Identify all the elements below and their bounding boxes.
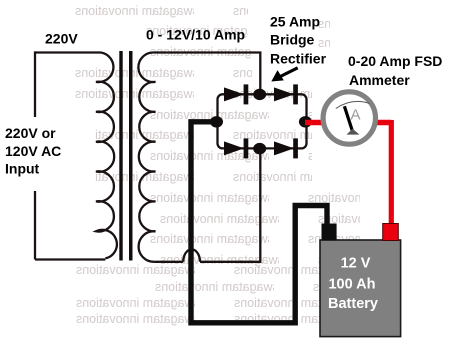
wire: primary top lead xyxy=(35,51,101,53)
battery labels xyxy=(328,256,378,312)
wire: secondary top lead to bridge AC top node xyxy=(154,53,260,91)
svg-text:Battery: Battery xyxy=(328,296,378,312)
diode D1 (bridge top-left) triangle xyxy=(224,87,244,101)
wire: red positive lead down to battery plus xyxy=(389,120,394,226)
ammeter needle xyxy=(344,106,352,131)
diode D2 (bridge top-right) triangle xyxy=(274,87,294,101)
bridge rectifier outline xyxy=(218,94,307,148)
diode D3 (bridge bottom-left) triangle xyxy=(224,141,244,155)
wire: primary left vertical lead xyxy=(34,51,36,259)
svg-text:0 - 12V/10 Amp: 0 - 12V/10 Amp xyxy=(146,27,245,43)
svg-text:220V: 220V xyxy=(45,31,78,47)
ammeter scale arc xyxy=(336,101,370,108)
battery plus terminal xyxy=(383,224,399,241)
svg-text:Ammeter: Ammeter xyxy=(349,72,410,88)
svg-text:220V or: 220V or xyxy=(5,125,56,141)
diode D3 cathode bar xyxy=(244,138,249,158)
white backing for AC input label xyxy=(2,117,95,191)
diode D1 cathode bar xyxy=(244,84,249,104)
diode D4 cathode bar xyxy=(293,138,298,158)
svg-text:100 Ah: 100 Ah xyxy=(328,277,375,293)
svg-text:Bridge: Bridge xyxy=(270,32,315,48)
ammeter M1 body xyxy=(323,92,375,144)
transformer T1 primary winding xyxy=(96,53,117,259)
svg-text:12 V: 12 V xyxy=(341,256,371,272)
junction dot: bridge DC plus node xyxy=(299,116,312,127)
wire hop: secondary bottom lead crossing thick negative wire xyxy=(183,249,200,261)
wire: secondary bottom lead (left of hop) xyxy=(155,261,184,263)
battery B1 body xyxy=(320,240,401,337)
transformer T1 secondary winding xyxy=(138,52,155,261)
svg-text:Input: Input xyxy=(5,161,40,177)
label arrow pointing to bridge rectifier xyxy=(271,68,297,82)
ammeter needle base xyxy=(347,129,360,135)
transformer core line left xyxy=(119,51,122,261)
svg-text:Rectifier: Rectifier xyxy=(270,51,327,67)
junction dot: bridge AC top node xyxy=(253,89,266,100)
junction dot: bridge AC bottom node xyxy=(253,143,266,154)
junction dot: bridge DC minus node xyxy=(210,116,223,127)
svg-text:120V AC: 120V AC xyxy=(5,143,61,159)
wire: primary bottom lead xyxy=(35,258,105,260)
wire: thick negative lead from bridge to battery minus xyxy=(191,122,327,323)
diode D2 cathode bar xyxy=(293,84,298,104)
battery minus terminal xyxy=(322,224,337,241)
diode D4 (bridge bottom-right) triangle xyxy=(274,141,294,155)
svg-text:25 Amp: 25 Amp xyxy=(270,13,320,29)
transformer core line right xyxy=(129,51,133,261)
wire: red positive lead from bridge through ammeter xyxy=(305,120,391,126)
wire: secondary bottom lead to bridge AC bottom node xyxy=(200,152,260,262)
svg-text:0-20 Amp FSD: 0-20 Amp FSD xyxy=(348,53,442,69)
svg-text:A: A xyxy=(351,106,361,123)
